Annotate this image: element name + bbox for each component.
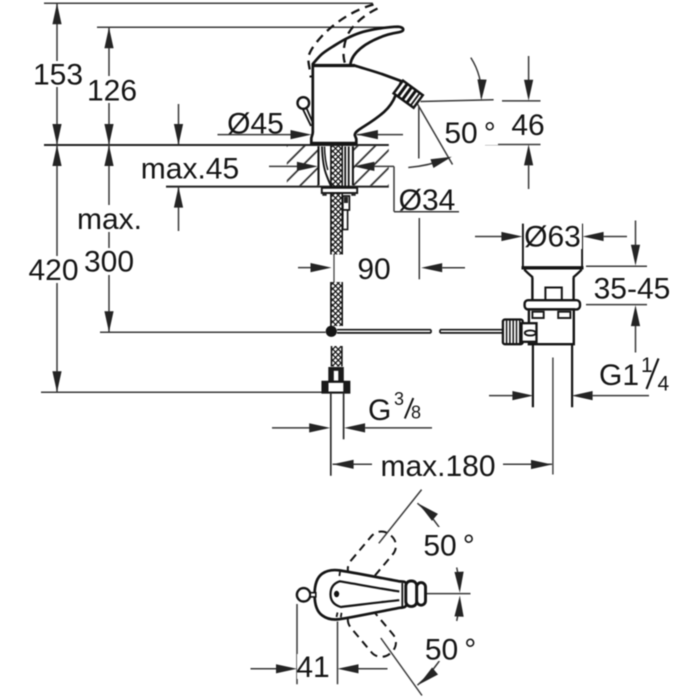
- svg-text:46: 46: [511, 109, 544, 142]
- svg-text:35-45: 35-45: [594, 273, 671, 306]
- svg-text:G1: G1: [599, 359, 639, 392]
- svg-text:420: 420: [28, 254, 78, 287]
- svg-text:3: 3: [394, 389, 404, 409]
- svg-text:4: 4: [658, 373, 670, 396]
- svg-text:8: 8: [411, 403, 421, 423]
- svg-text:1: 1: [641, 354, 653, 377]
- svg-text:41: 41: [296, 651, 329, 684]
- svg-text:153: 153: [33, 59, 83, 92]
- svg-text:50 °: 50 °: [444, 117, 495, 150]
- svg-text:50 °: 50 °: [423, 530, 474, 563]
- svg-text:Ø34: Ø34: [399, 184, 456, 217]
- svg-text:90: 90: [357, 253, 390, 286]
- svg-text:G: G: [368, 394, 391, 427]
- svg-text:max.: max.: [77, 203, 142, 236]
- svg-text:max.45: max.45: [141, 153, 239, 186]
- svg-text:Ø63: Ø63: [524, 221, 581, 254]
- svg-text:50 °: 50 °: [425, 634, 476, 667]
- svg-text:Ø45: Ø45: [227, 108, 284, 141]
- svg-text:300: 300: [84, 246, 134, 279]
- svg-text:max.180: max.180: [380, 450, 495, 483]
- svg-text:126: 126: [87, 75, 137, 108]
